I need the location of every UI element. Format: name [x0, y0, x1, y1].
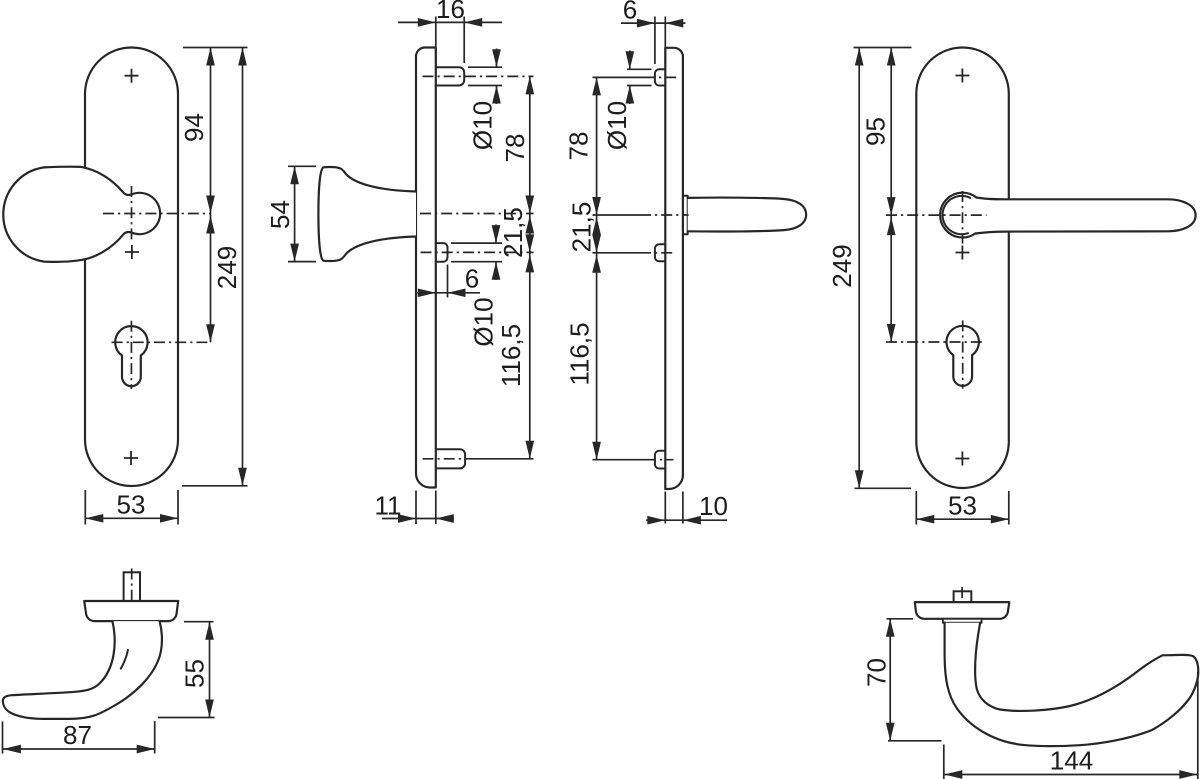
- dimension 94 (P1 top to knob axis): [179, 48, 215, 214]
- screw mark top (P2): [955, 69, 969, 83]
- dimension 6 (bolt B4 length): [621, 0, 686, 64]
- extension line bottom (P1): [182, 485, 248, 487]
- dimension 53 (P1 width): [85, 490, 178, 525]
- knob K1 front outline: [3, 167, 160, 262]
- svg-text:Ø10: Ø10: [469, 297, 499, 346]
- lever handle L1 side view (grip): [688, 198, 807, 232]
- backplate P2 (lever set, front view): [916, 48, 1009, 489]
- extension line top (P1): [183, 47, 248, 49]
- dimension 54 (knob height): [265, 166, 316, 261]
- lever L1 rose flange: [915, 602, 1010, 619]
- centre-line bolt B2: [421, 251, 534, 253]
- lever neck outer circle: [940, 193, 976, 238]
- backplate P1 (knob set, front view): [85, 48, 178, 487]
- fixing bolt B4 top (6 mm): [655, 69, 665, 85]
- svg-text:54: 54: [265, 200, 295, 229]
- cylinder hole centre-lines (P2): [886, 320, 982, 388]
- knob K1 side outline: [318, 167, 416, 261]
- centre-line bolt B5: [593, 252, 641, 254]
- dimension lever axis to cylinder (P2, unlabelled): [887, 215, 896, 342]
- svg-text:78: 78: [500, 134, 530, 163]
- knob spindle centre-line: [131, 569, 133, 626]
- dimension 55 (knob projection): [158, 622, 215, 718]
- euro profile cylinder hole (P2): [947, 326, 979, 386]
- svg-text:94: 94: [179, 113, 209, 142]
- svg-text:53: 53: [948, 491, 977, 521]
- svg-text:11: 11: [375, 491, 402, 521]
- svg-text:249: 249: [212, 246, 242, 289]
- svg-text:87: 87: [63, 720, 92, 750]
- screw mark middle (P2): [955, 246, 969, 260]
- dimension 10 (plate P2 thickness): [646, 491, 728, 525]
- lever L1 neck collar: [943, 619, 982, 623]
- svg-text:53: 53: [117, 490, 146, 520]
- dimension 87 (knob depth): [3, 720, 155, 754]
- dimension 249 (P2 overall height): [827, 48, 864, 489]
- dimension 70 (lever drop): [862, 619, 942, 741]
- dimension 144 (lever length): [944, 672, 1198, 779]
- screw mark bottom (P2): [955, 452, 969, 466]
- dimension 249 (P1 overall height): [212, 48, 247, 486]
- lever handle L1 side view (neck collar): [683, 196, 688, 235]
- dimension chain 78 / 21,5 / 116,5 (side view): [496, 76, 534, 458]
- lever L1 profile body: [945, 623, 1199, 747]
- svg-text:Ø10: Ø10: [468, 101, 498, 150]
- svg-text:95: 95: [861, 117, 891, 146]
- svg-text:70: 70: [862, 658, 892, 687]
- dimension 95 (P2 top to lever axis): [861, 48, 896, 216]
- svg-text:21,5: 21,5: [498, 207, 528, 258]
- screw mark bottom (P1): [124, 451, 138, 465]
- svg-text:249: 249: [827, 244, 857, 287]
- fixing bolt B5 middle (6 mm): [655, 244, 665, 261]
- dimension 6 (bolt B2 length): [417, 264, 480, 298]
- svg-text:10: 10: [699, 491, 728, 521]
- dimension 16 (bolt B1 length): [398, 0, 502, 63]
- dimension chain 78 / 21,5 / 116,5 (lever side view): [563, 77, 601, 459]
- lever L1 spindle: [954, 591, 972, 602]
- dimension Ø10 (bolt B2 diameter): [451, 225, 502, 347]
- svg-text:21,5: 21,5: [567, 202, 597, 253]
- dimension 11 (plate thickness): [375, 491, 455, 525]
- lever spindle centre-line: [961, 587, 963, 627]
- centre-line lever axis (side view): [593, 214, 641, 216]
- fixing bolt B2 middle (6 mm): [436, 243, 448, 262]
- extension line top (P2): [854, 47, 912, 49]
- centre-line bolt B6: [593, 459, 646, 461]
- dimension 53 (P2 width): [916, 491, 1009, 525]
- knob body highlight line: [121, 650, 128, 669]
- cylinder hole centre-lines (P1): [112, 321, 210, 389]
- fixing bolt B6 bottom (6 mm): [655, 451, 665, 469]
- lever neck inner arc: [943, 196, 971, 234]
- centre-line bolt B1: [423, 75, 534, 77]
- knob K1 spindle: [124, 572, 140, 601]
- svg-text:6: 6: [465, 264, 479, 294]
- fixing bolt B1 top (16 mm): [436, 67, 464, 85]
- svg-text:144: 144: [1050, 746, 1093, 776]
- knob K1 rose flange: [84, 601, 178, 621]
- svg-text:6: 6: [623, 0, 637, 25]
- lever axis cross-lines (P2): [886, 191, 987, 244]
- svg-text:116,5: 116,5: [565, 322, 595, 385]
- backplate P1 side view: [416, 48, 436, 488]
- svg-text:78: 78: [563, 132, 593, 161]
- lever grip front view: [975, 198, 1195, 234]
- svg-text:116,5: 116,5: [496, 324, 526, 387]
- svg-text:16: 16: [436, 0, 465, 24]
- euro profile cylinder hole (P1): [115, 326, 147, 386]
- dimension Ø10 (bolt B4 diameter): [602, 51, 652, 151]
- extension line bottom (P2): [855, 487, 912, 489]
- knob K1 profile body: [3, 621, 162, 719]
- centre-line knob axis (side view): [420, 213, 534, 215]
- backplate P2 side view: [665, 48, 683, 489]
- svg-text:55: 55: [180, 659, 210, 688]
- screw mark middle (P1): [125, 245, 139, 259]
- knob K1 centre cross-lines: [103, 186, 210, 243]
- screw mark top (P1): [125, 69, 139, 83]
- centre-line bolt B3: [423, 458, 469, 460]
- dimension knob axis to cylinder (P1, unlabelled): [206, 214, 215, 343]
- centre-line bolt B4: [593, 76, 645, 78]
- dimension Ø10 (bolt B1 diameter): [468, 49, 502, 151]
- svg-text:Ø10: Ø10: [602, 101, 632, 150]
- fixing bolt B3 bottom (16 mm): [436, 449, 465, 468]
